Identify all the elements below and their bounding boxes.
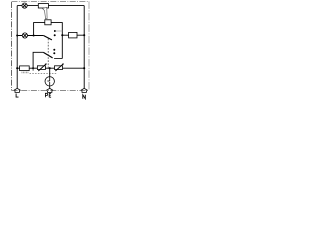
terminal clamp PE (46, 88, 53, 92)
label PE (45, 93, 51, 97)
switch S1 contact top (54, 30, 56, 32)
enclosure border left (11, 2, 13, 90)
thermal linkage dashed horizontal (30, 73, 57, 75)
node: lamp branch / bridge (33, 34, 35, 36)
thermal stub (32, 68, 34, 70)
node: N riser / R4 branch (83, 34, 85, 36)
switch S2 contact mid (53, 52, 55, 54)
switch S2 bottom contact wire (54, 58, 62, 60)
enclosure border right (88, 1, 90, 90)
wire: left L riser (16, 6, 18, 89)
gas discharge tube F1 (45, 68, 54, 88)
wire: bridge over R2 and busbar (34, 23, 63, 59)
switch S1 contact mid (54, 34, 56, 36)
varistor RV2 (55, 63, 64, 71)
label N (83, 95, 86, 99)
enclosure border bottom (12, 89, 90, 91)
varistor RV1 (37, 63, 46, 71)
node: L riser / main wire (16, 67, 18, 69)
resistor R4 (69, 32, 77, 38)
lamp E1 (circle-X indicator) (22, 3, 27, 8)
node: L riser / lamp branch (16, 34, 18, 36)
terminal clamp N (81, 88, 88, 92)
resistor R2 (under arrow) (45, 20, 51, 25)
enclosure border top (12, 0, 90, 2)
wire: R4 branch (62, 34, 84, 36)
lamp E2 (circle-X indicator) (22, 33, 27, 38)
wire: main bottom horizontal (17, 67, 84, 69)
switch S2 lever (43, 52, 52, 58)
label R3 value (22, 71, 29, 73)
switch S1 lever (44, 36, 52, 40)
wire: S2 feed (33, 52, 43, 68)
node: busbar / R4 branch (61, 34, 63, 36)
wire: right N riser (83, 6, 85, 89)
wire: top horizontal (17, 5, 84, 7)
mechanical linkage dashed (47, 39, 49, 68)
node: N riser / main wire (83, 67, 85, 69)
switch S1 contact stub (55, 30, 62, 32)
disconnector arrow (42, 7, 47, 18)
resistor R3 (20, 66, 30, 71)
label L (16, 94, 18, 98)
resistor R1 (top) (38, 4, 48, 8)
terminal clamp L (14, 88, 21, 92)
node: main wire / gas tube tap (49, 67, 51, 69)
wire: lamp E2 branch (17, 35, 44, 37)
switch S2 contact top (53, 49, 55, 51)
node: main wire / S2 feed (32, 67, 34, 69)
